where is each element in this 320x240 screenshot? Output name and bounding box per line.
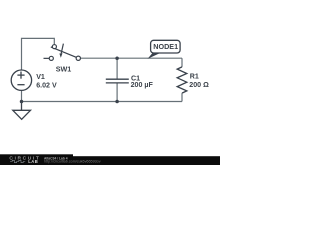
C1 bottom plate: [106, 82, 129, 84]
SW1 actuator arrowhead: [59, 53, 62, 58]
svg-text:200 µF: 200 µF: [131, 81, 154, 89]
R1 top lead: [181, 58, 183, 67]
svg-text:200 Ω: 200 Ω: [189, 81, 209, 89]
wire bottom segment: [22, 101, 183, 103]
SW1 left terminal stub: [44, 57, 50, 59]
svg-text:SW1: SW1: [56, 64, 72, 73]
svg-text:LAB: LAB: [28, 159, 38, 164]
junction dot ground: [20, 100, 24, 104]
SW1 right terminal circle: [76, 56, 80, 60]
C1 top plate: [106, 78, 129, 80]
SW1 left terminal circle: [49, 56, 53, 60]
capacitor C1: [106, 58, 129, 101]
wire from V1 top up left rail: [22, 38, 55, 70]
junction dot bottom (C1/bottom wire): [115, 100, 119, 104]
voltage source V1: [11, 70, 31, 90]
svg-text:NODE1: NODE1: [153, 42, 178, 51]
resistor R1: [177, 58, 187, 101]
switch SW1: [44, 44, 81, 61]
V1 circle: [11, 70, 31, 90]
wire main top segment from switch to R1: [80, 57, 182, 59]
footer bar left tall section: [0, 154, 73, 165]
C1 top lead: [116, 58, 118, 78]
SW1 actuator arrow shaft: [61, 44, 63, 54]
V1 plus sign: [17, 74, 24, 76]
V1 minus sign: [17, 84, 24, 86]
svg-text:V1: V1: [36, 73, 45, 81]
footer bar right section: [73, 156, 220, 165]
R1 zigzag: [177, 67, 187, 93]
svg-text:http://circuitlab.com/cuk6v665: http://circuitlab.com/cuk6v66593ov: [44, 160, 101, 164]
svg-text:R1: R1: [190, 73, 199, 81]
R1 bottom lead: [181, 93, 183, 101]
svg-text:6.02 V: 6.02 V: [36, 82, 57, 90]
SW1 blade tip circle: [52, 45, 56, 49]
ground: [13, 102, 31, 120]
junction dot top (C1/top wire): [115, 56, 119, 60]
node NODE1 callout box: [151, 40, 181, 53]
footer CircuitLab logo waveform: [10, 160, 25, 162]
node NODE1 callout tail: [148, 52, 162, 59]
C1 bottom lead: [116, 84, 118, 102]
wire V1 bottom lead: [21, 91, 23, 102]
SW1 blade: [51, 47, 77, 58]
